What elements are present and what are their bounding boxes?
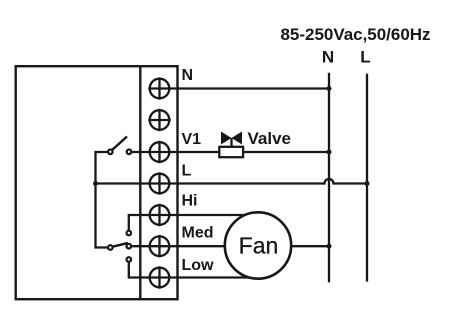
- terminal strip divider: [139, 66, 141, 299]
- valve V1 symbol: [219, 132, 243, 158]
- switch S1 left contact: [108, 150, 113, 155]
- switch S2 Hi contact: [127, 231, 132, 236]
- terminal screw Med: [148, 235, 170, 257]
- svg-text:85-250Vac,50/60Hz: 85-250Vac,50/60Hz: [281, 25, 431, 44]
- terminal screw N: [148, 77, 170, 99]
- svg-text:L: L: [182, 163, 192, 180]
- switch S1 wire: left contact to junction and down to fan switch: [96, 152, 109, 248]
- switch S2 Low contact: [127, 257, 132, 262]
- svg-text:Med: Med: [182, 225, 214, 242]
- switch S1 right contact: [127, 150, 132, 155]
- terminal screw Low: [148, 266, 170, 288]
- svg-text:N: N: [322, 48, 334, 67]
- supply N line: [328, 73, 330, 283]
- switch S2 common contact: [108, 245, 113, 250]
- switch S2 blade (fan speed selector): [112, 243, 128, 247]
- junction N wire / N line: [327, 86, 332, 91]
- svg-text:Low: Low: [182, 257, 215, 274]
- svg-text:N: N: [182, 67, 194, 84]
- terminal screw Hi: [148, 204, 170, 226]
- svg-text:V1: V1: [182, 131, 202, 148]
- wire Low terminal to fan: [129, 261, 258, 278]
- switch S1 blade (valve switch): [112, 137, 128, 151]
- terminal screw (spare): [148, 109, 170, 131]
- svg-text:Hi: Hi: [182, 193, 198, 210]
- junction valve wire / N line: [327, 150, 332, 155]
- terminal screw V1: [148, 141, 170, 163]
- wire Med terminal through fan to supply N line: [131, 245, 329, 247]
- svg-text:Fan: Fan: [239, 233, 279, 259]
- switch S2 Med contact: [127, 244, 132, 249]
- wire V1 terminal through valve to supply N line: [131, 151, 329, 153]
- junction at L row: [93, 181, 98, 186]
- wire L terminal to supply L line with hop over N line: [96, 179, 368, 184]
- wire Hi terminal to fan: [129, 215, 258, 232]
- thermostat body outline: [16, 66, 178, 299]
- junction L wire / L line: [365, 181, 370, 186]
- fan M1: [225, 212, 291, 278]
- wire N terminal to supply N line: [160, 87, 330, 89]
- supply L line: [366, 74, 368, 282]
- terminal screw L: [148, 172, 170, 194]
- junction fan wire / N line: [327, 244, 332, 249]
- svg-text:L: L: [360, 48, 370, 67]
- svg-text:Valve: Valve: [248, 129, 292, 148]
